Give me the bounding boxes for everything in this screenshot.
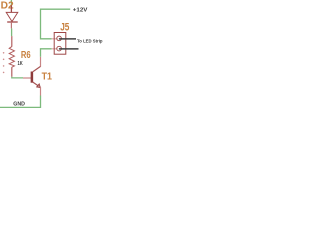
svg-text:1K: 1K: [18, 61, 23, 67]
svg-text:To LED Strip: To LED Strip: [77, 38, 103, 43]
connector J5 pin 2 line: [59, 48, 79, 50]
svg-text:R6: R6: [21, 50, 31, 61]
diode D2: [6, 5, 18, 28]
diode D2 triangle: [6, 12, 18, 21]
diode D2 cathode bar: [7, 21, 18, 23]
transistor T1 base bar: [31, 72, 34, 83]
svg-text:J5: J5: [60, 22, 69, 34]
wire +12V riser and pin1: [41, 9, 71, 39]
resistor R6 zigzag body: [9, 47, 14, 68]
connector J5 pin 1 stub: [52, 38, 58, 40]
wire top stub above diode: [10, 0, 12, 5]
connector J5 pin 1 line: [59, 38, 76, 40]
svg-text:+12V: +12V: [73, 8, 88, 14]
transistor T1: [23, 57, 41, 96]
connector J5 body: [54, 33, 66, 55]
svg-text:T1: T1: [42, 72, 53, 83]
wire diode to resistor: [11, 28, 13, 36]
connector J5 pin 1 circle: [57, 36, 62, 41]
connector J5 pin 2 stub: [52, 48, 58, 50]
svg-text:GND: GND: [13, 101, 25, 107]
diode D2 anode pin: [10, 5, 12, 12]
partial resistor zigzag tips at left edge: [3, 52, 5, 73]
resistor R6: [9, 36, 14, 77]
wire emitter to GND: [0, 96, 41, 108]
transistor T1 emitter pin: [40, 87, 42, 95]
diode D2 cathode pin: [10, 22, 12, 28]
resistor R6 bottom pin: [11, 67, 13, 77]
connector J5 pin 2 circle: [57, 46, 62, 51]
transistor T1 collector diagonal: [33, 66, 41, 71]
transistor T1 base pin: [23, 77, 31, 79]
wire collector to pin2 elbow: [41, 49, 52, 57]
transistor T1 emitter arrow: [37, 84, 41, 88]
resistor R6 top pin: [11, 36, 13, 47]
svg-text:D2: D2: [1, 0, 14, 11]
transistor T1 collector pin: [40, 57, 42, 67]
wire resistor to base: [12, 77, 23, 78]
transistor T1 emitter diagonal: [33, 82, 41, 87]
